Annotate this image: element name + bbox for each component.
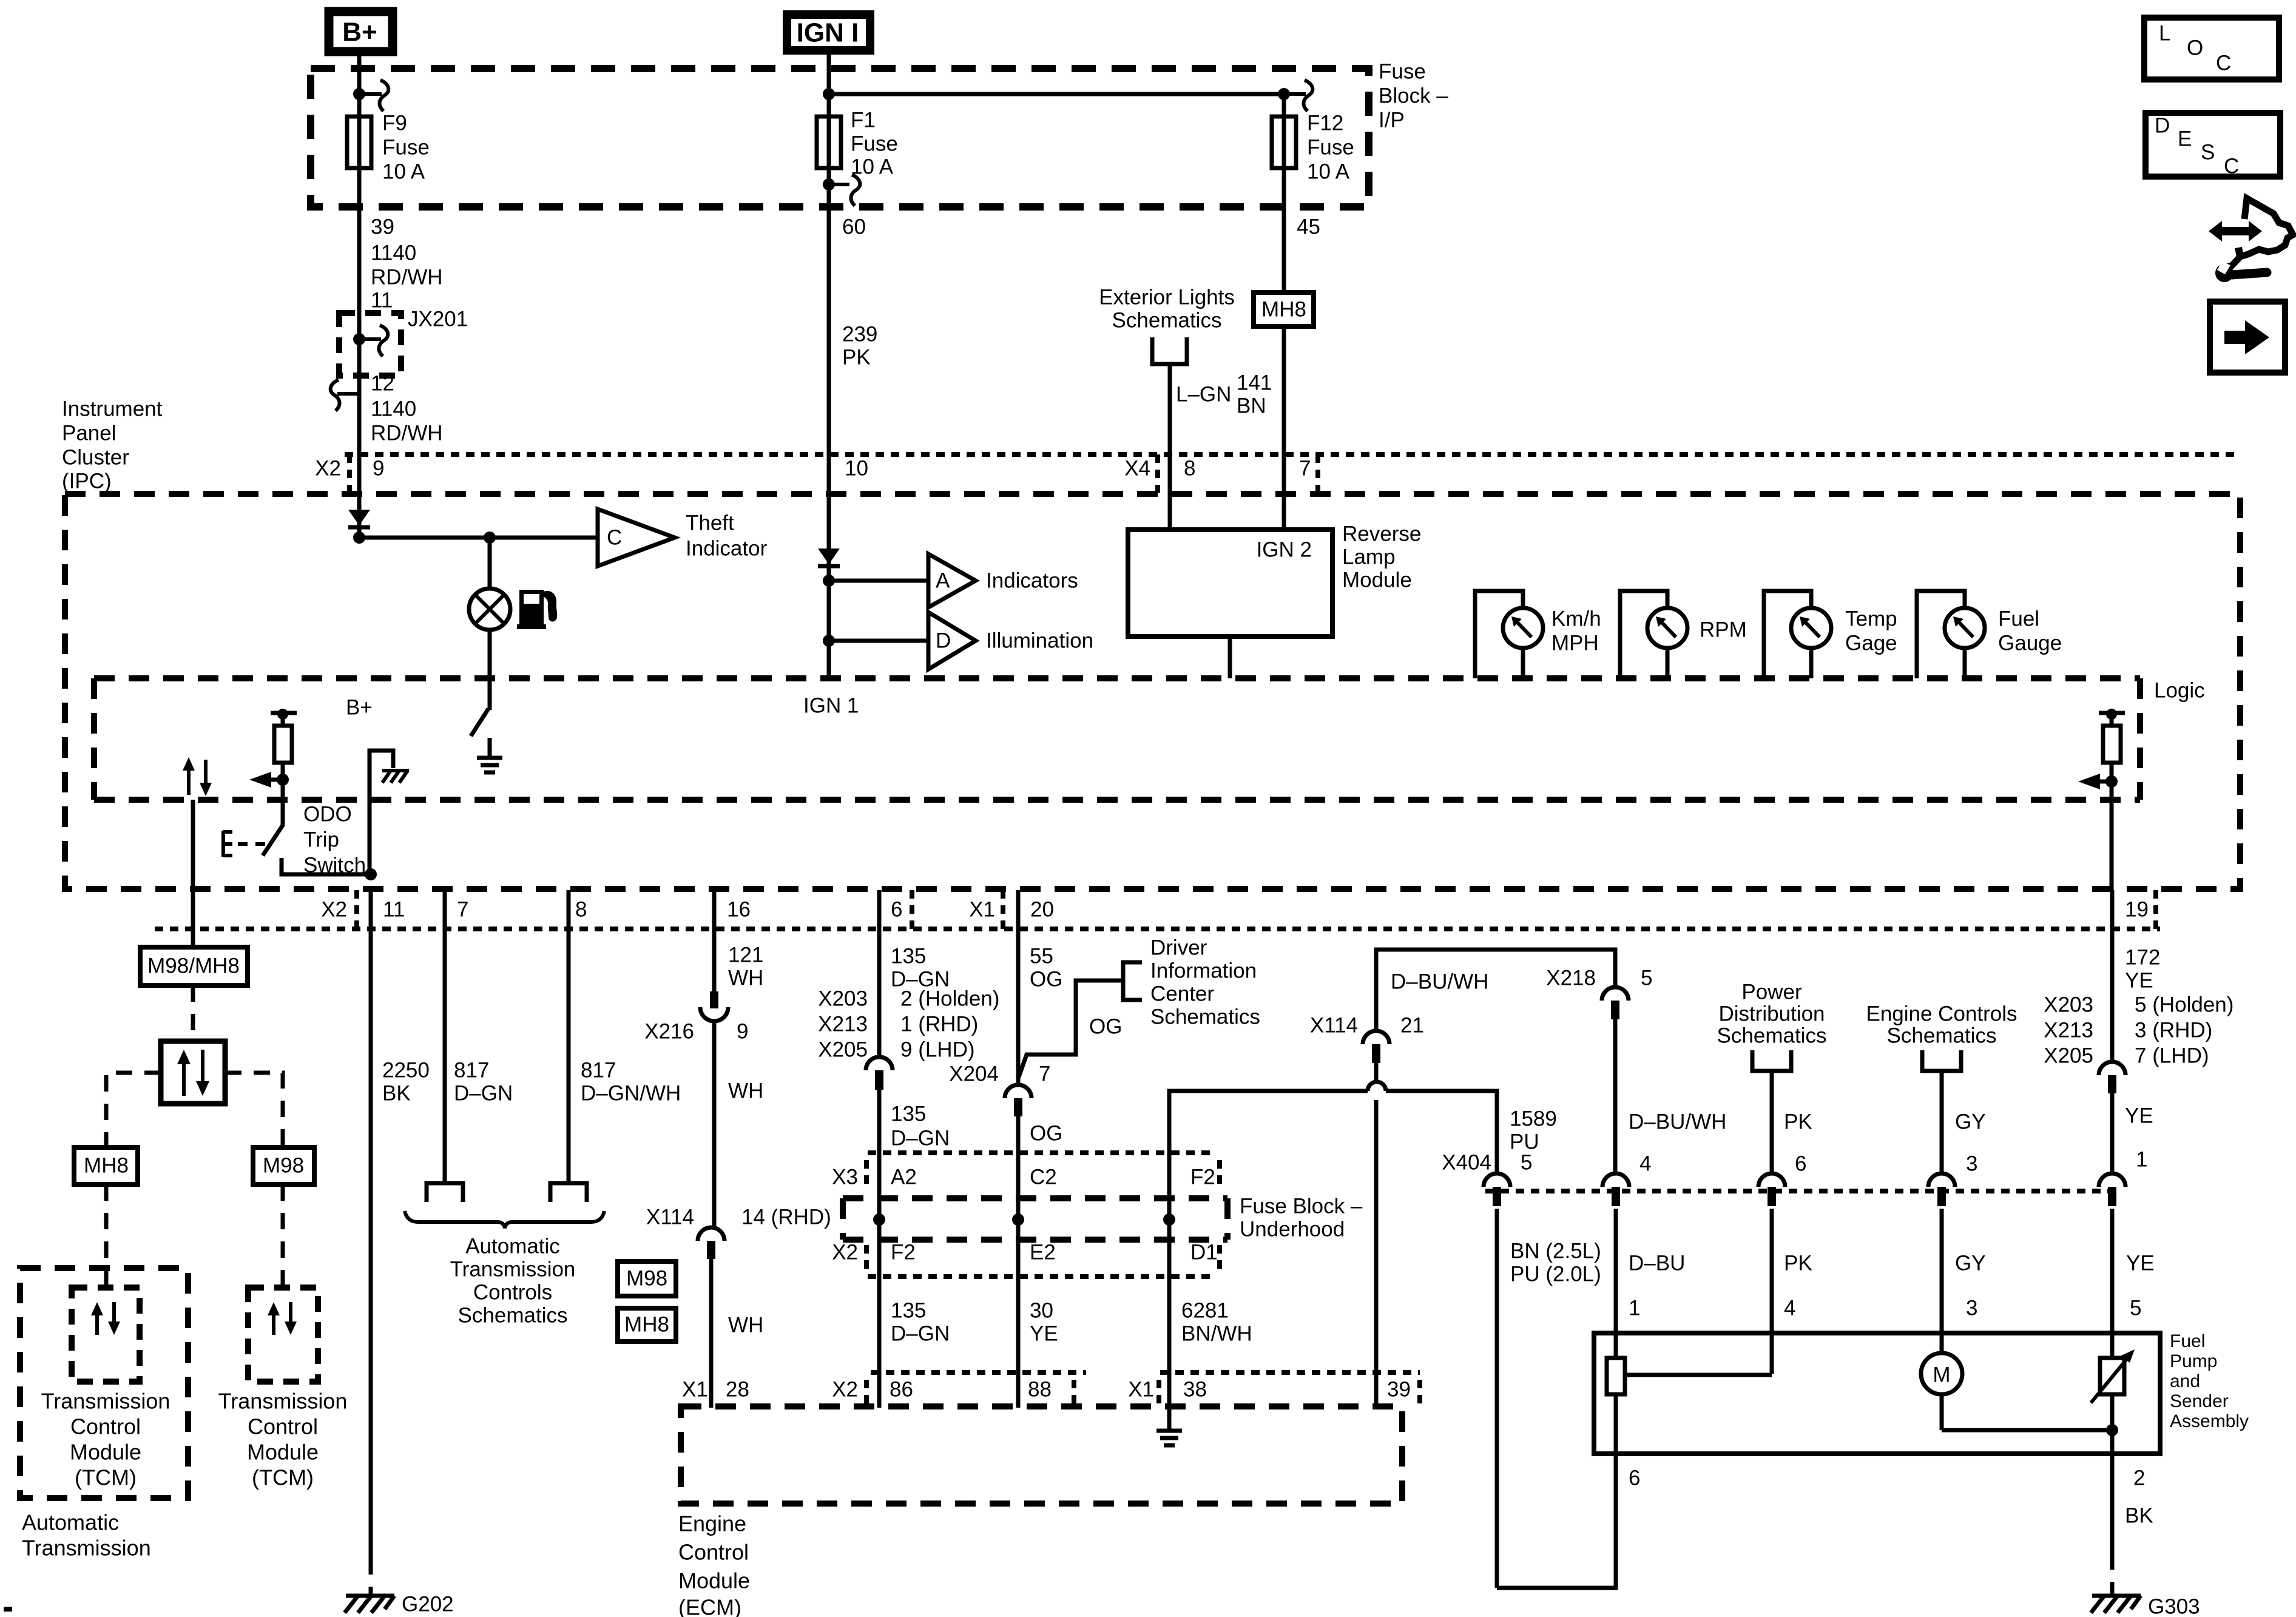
connector dotted line top — [345, 452, 2240, 457]
svg-text:Transmission: Transmission — [218, 1389, 348, 1414]
connector X114-14 — [646, 1205, 831, 1259]
svg-text:X218: X218 — [1546, 966, 1596, 990]
svg-text:5: 5 — [1641, 966, 1652, 990]
node below diode — [353, 532, 365, 544]
goto symbol 817 D-GN — [427, 1183, 463, 1202]
node below F1 — [823, 178, 835, 191]
label Engine Controls Schematics — [1866, 1002, 2017, 1047]
svg-text:4: 4 — [1639, 1152, 1651, 1175]
svg-text:5: 5 — [2130, 1296, 2141, 1320]
labels 2250 BK — [382, 1058, 430, 1105]
svg-text:E: E — [2178, 127, 2192, 150]
svg-text:Information: Information — [1150, 959, 1257, 982]
svg-text:7 (LHD): 7 (LHD) — [2135, 1044, 2209, 1067]
node at lamp branch — [484, 532, 496, 544]
svg-text:X213: X213 — [818, 1012, 868, 1036]
brace automatic transmission controls — [405, 1211, 604, 1228]
svg-text:X203: X203 — [2044, 993, 2093, 1016]
bracket right of pin 7 — [1315, 454, 1320, 493]
JX201 junction box — [339, 307, 468, 376]
wire IGN I down — [827, 49, 831, 116]
switch blade — [471, 709, 488, 736]
svg-text:X203: X203 — [818, 987, 868, 1010]
svg-text:8: 8 — [575, 897, 587, 921]
svg-text:Fuse: Fuse — [1379, 59, 1426, 83]
wire 817 D-GN — [443, 890, 447, 1184]
wire PK — [1770, 1071, 1774, 1174]
svg-text:1140: 1140 — [371, 241, 416, 265]
svg-text:BK: BK — [2125, 1504, 2153, 1527]
TCM 2 dashed box — [248, 1288, 318, 1382]
svg-text:Temp: Temp — [1845, 607, 1897, 630]
label ODO Trip Switch — [303, 802, 366, 877]
svg-text:Schematics: Schematics — [1717, 1024, 1827, 1047]
svg-text:X1: X1 — [969, 897, 995, 921]
svg-text:MH8: MH8 — [84, 1153, 129, 1177]
svg-text:Theft: Theft — [686, 511, 734, 535]
MH8 connector box — [1254, 292, 1314, 326]
svg-text:Cluster: Cluster — [62, 445, 129, 469]
svg-text:Gauge: Gauge — [1998, 631, 2062, 655]
svg-text:OG: OG — [1030, 1121, 1062, 1145]
svg-text:F2: F2 — [891, 1240, 916, 1264]
reverse lamp module box — [1128, 530, 1332, 636]
wire ODO to switch — [281, 780, 285, 826]
node at fuel sender arrow — [2105, 775, 2118, 788]
automatic transmission dashed box — [20, 1268, 188, 1498]
svg-text:2 (Holden): 2 (Holden) — [900, 987, 999, 1010]
wire 2 BK — [2110, 1430, 2115, 1553]
internal chassis ground in IPC — [370, 751, 409, 874]
wire L-GN — [1168, 364, 1172, 531]
connector X114-21 — [1310, 1013, 1424, 1063]
svg-text:YE: YE — [1030, 1322, 1058, 1345]
resistor in pump — [1607, 1333, 1772, 1455]
left arrow at ODO — [249, 772, 283, 788]
goto symbol 817 D-GN/WH — [550, 1183, 587, 1202]
hop over D-BU/WH wire — [1368, 1082, 1386, 1091]
ground G303 — [2091, 1595, 2200, 1617]
svg-text:D–GN: D–GN — [454, 1081, 513, 1105]
clip hook below JX201 left — [331, 380, 359, 411]
DIC bus symbol — [1123, 962, 1142, 1000]
LOC box — [2144, 18, 2279, 79]
svg-text:C2: C2 — [1030, 1165, 1057, 1189]
svg-text:141: 141 — [1237, 371, 1272, 394]
node at ODO arrow — [277, 774, 289, 786]
svg-text:I/P: I/P — [1379, 108, 1405, 132]
svg-text:D1: D1 — [1190, 1240, 1218, 1264]
svg-text:6: 6 — [1629, 1466, 1640, 1490]
X2 bracket lower — [864, 1245, 869, 1275]
svg-text:1: 1 — [1629, 1296, 1640, 1320]
svg-text:Fuel: Fuel — [2170, 1331, 2205, 1351]
svg-text:D: D — [936, 629, 951, 652]
svg-text:10 A: 10 A — [1307, 160, 1350, 183]
gauge Km/h MPH — [1475, 591, 1601, 678]
label Automatic Transmission Controls Schematics — [450, 1234, 576, 1327]
svg-text:Fuse: Fuse — [1307, 135, 1354, 159]
wire 121 WH — [712, 890, 717, 991]
svg-text:Schematics: Schematics — [1150, 1005, 1260, 1028]
svg-text:D–GN: D–GN — [891, 1126, 950, 1150]
node at F12 top — [1278, 88, 1290, 100]
arrow box icon — [2210, 302, 2285, 373]
wire logic to X2 pin (unnumbered) — [191, 800, 195, 948]
connector X404-4 — [1602, 1152, 1651, 1206]
bracket right of 19 — [2153, 890, 2158, 929]
svg-text:Engine: Engine — [678, 1511, 746, 1536]
svg-text:E2: E2 — [1030, 1240, 1056, 1264]
connector X404-1 — [2099, 1147, 2147, 1206]
svg-text:Distribution: Distribution — [1718, 1002, 1825, 1025]
bracket right of 39 — [1417, 1380, 1422, 1408]
odometer resistor — [271, 709, 297, 778]
wire F9 to connector — [357, 168, 362, 495]
svg-text:X216: X216 — [644, 1019, 694, 1043]
svg-text:172: 172 — [2125, 945, 2160, 969]
svg-text:X114: X114 — [646, 1205, 694, 1229]
labels 135 D-GN low — [891, 1298, 950, 1345]
wire YE mid — [2110, 1093, 2115, 1174]
node to A buffer — [823, 575, 835, 587]
svg-text:817: 817 — [581, 1058, 616, 1082]
svg-text:45: 45 — [1297, 215, 1320, 238]
svg-text:GY: GY — [1955, 1110, 1986, 1133]
labels 2 Holden 1 RHD 9 LHD — [900, 987, 999, 1061]
X1 bracket — [1001, 890, 1005, 929]
svg-text:X404: X404 — [1442, 1150, 1491, 1174]
svg-text:S: S — [2201, 140, 2215, 164]
X2 bracket ECM — [864, 1380, 869, 1408]
M98 connector box — [253, 1147, 314, 1184]
svg-text:Fuse Block –: Fuse Block – — [1240, 1194, 1363, 1218]
wire 55 OG — [1016, 890, 1021, 1086]
svg-text:MH8: MH8 — [1261, 297, 1306, 321]
svg-text:2: 2 — [2133, 1466, 2145, 1490]
labels 135 D-GN mid — [891, 1102, 950, 1150]
label TCM 1 — [41, 1389, 171, 1490]
svg-text:X2: X2 — [832, 1240, 858, 1264]
svg-text:D–BU: D–BU — [1629, 1251, 1685, 1275]
svg-text:Power: Power — [1741, 980, 1802, 1004]
M98/MH8 connector box — [140, 947, 248, 985]
wire X218-5 down — [1613, 1019, 1618, 1174]
svg-text:IGN 1: IGN 1 — [803, 694, 859, 717]
label Driver Information Center Schematics — [1150, 936, 1260, 1028]
D buffer triangle — [928, 612, 976, 669]
svg-text:817: 817 — [454, 1058, 489, 1082]
svg-text:1589: 1589 — [1510, 1107, 1557, 1130]
svg-text:(IPC): (IPC) — [62, 469, 112, 493]
svg-text:M98: M98 — [626, 1266, 667, 1290]
svg-text:D–BU/WH: D–BU/WH — [1391, 970, 1488, 993]
svg-text:G303: G303 — [2148, 1595, 2200, 1617]
X4 bracket — [1155, 454, 1160, 493]
svg-text:Control: Control — [70, 1414, 141, 1439]
svg-text:X204: X204 — [949, 1062, 999, 1085]
svg-text:RD/WH: RD/WH — [371, 265, 443, 289]
svg-text:Indicator: Indicator — [686, 536, 768, 560]
wire IGN1 into IPC — [827, 495, 831, 678]
connector X203 on D-GN — [866, 1057, 893, 1090]
connector X216-9 — [644, 991, 748, 1043]
svg-text:Indicators: Indicators — [986, 569, 1078, 592]
data arrows in TCM 1 — [91, 1302, 120, 1335]
svg-text:8: 8 — [1184, 456, 1195, 480]
connector dotted X3 row — [868, 1150, 1210, 1155]
node in JX201 — [353, 333, 365, 345]
dashed wire M98 to TCM — [281, 1184, 285, 1288]
svg-text:X205: X205 — [2044, 1044, 2093, 1067]
labels 12 1140 RD/WH — [371, 371, 443, 445]
svg-text:Gage: Gage — [1845, 631, 1897, 655]
svg-text:PK: PK — [1784, 1110, 1812, 1133]
labels 30 YE — [1030, 1298, 1058, 1345]
labels 141 BN — [1237, 371, 1272, 417]
svg-text:3: 3 — [1966, 1152, 1977, 1175]
svg-text:14 (RHD): 14 (RHD) — [741, 1205, 831, 1229]
labels 6281 BN/WH — [1181, 1298, 1252, 1345]
X3 bracket — [864, 1160, 869, 1190]
svg-text:(TCM): (TCM) — [75, 1465, 137, 1490]
svg-text:3 (RHD): 3 (RHD) — [2135, 1018, 2212, 1042]
svg-text:10: 10 — [845, 456, 868, 480]
svg-text:5: 5 — [1521, 1150, 1532, 1174]
label Exterior Lights Schematics — [1099, 285, 1235, 332]
indicator lamp — [469, 589, 510, 630]
svg-text:86: 86 — [890, 1377, 913, 1401]
label X404 5 — [1442, 1150, 1532, 1174]
TCM 1 dashed box — [72, 1288, 140, 1382]
svg-text:6: 6 — [1795, 1152, 1806, 1175]
svg-text:121: 121 — [728, 943, 763, 967]
fuse F1 10A — [817, 116, 841, 168]
svg-text:Km/h: Km/h — [1551, 607, 1601, 630]
fuel pump dispenser icon — [517, 590, 557, 629]
X2 bracket bottom — [354, 890, 359, 929]
connector X404-6 — [1758, 1152, 1806, 1206]
svg-text:D–GN/WH: D–GN/WH — [581, 1081, 681, 1105]
svg-text:Pump: Pump — [2170, 1351, 2217, 1371]
labels 5 Holden 3 RHD 7 LHD — [2135, 993, 2234, 1067]
wire to theft indicator — [359, 536, 598, 540]
svg-text:Control: Control — [248, 1414, 318, 1439]
svg-text:3: 3 — [1966, 1296, 1977, 1320]
svg-text:Center: Center — [1150, 982, 1214, 1005]
svg-text:OG: OG — [1089, 1014, 1122, 1038]
dashed wire right branch — [225, 1073, 283, 1147]
svg-text:F12: F12 — [1307, 111, 1343, 135]
label Power Distribution Schematics — [1717, 980, 1827, 1047]
svg-text:9 (LHD): 9 (LHD) — [900, 1038, 975, 1061]
svg-text:38: 38 — [1183, 1377, 1207, 1401]
clip hook at B+ node — [359, 80, 388, 111]
wire GY to motor — [1940, 1209, 1944, 1354]
svg-text:YE: YE — [2126, 1251, 2155, 1275]
svg-text:X4: X4 — [1124, 456, 1150, 480]
svg-text:6: 6 — [891, 897, 902, 921]
wire PK to pump — [1770, 1209, 1774, 1374]
svg-text:F1: F1 — [851, 108, 876, 132]
svg-text:7: 7 — [457, 897, 468, 921]
svg-text:BN: BN — [1237, 394, 1266, 417]
labels 135 D-GN — [891, 944, 950, 991]
exterior lights bus symbol — [1152, 337, 1187, 364]
svg-text:Module: Module — [1342, 568, 1412, 592]
svg-text:Schematics: Schematics — [458, 1303, 568, 1327]
svg-text:19: 19 — [2125, 897, 2149, 921]
wire GY — [1940, 1071, 1944, 1174]
svg-text:Module: Module — [70, 1440, 141, 1465]
svg-text:135: 135 — [891, 944, 926, 968]
svg-text:G202: G202 — [402, 1592, 454, 1616]
svg-text:IGN I: IGN I — [797, 18, 859, 48]
svg-text:Engine Controls: Engine Controls — [1866, 1002, 2017, 1025]
connector X404-5 — [1484, 1173, 1510, 1206]
svg-text:JX201: JX201 — [408, 307, 468, 331]
A buffer triangle — [928, 554, 976, 607]
gauge RPM — [1620, 591, 1747, 678]
svg-text:IGN 2: IGN 2 — [1257, 538, 1312, 561]
svg-text:Panel: Panel — [62, 421, 116, 445]
svg-text:B+: B+ — [346, 695, 373, 719]
wire B+ into IPC — [357, 495, 362, 536]
labels 817 D-GN — [454, 1058, 513, 1105]
svg-text:X2: X2 — [315, 456, 341, 480]
svg-text:(TCM): (TCM) — [252, 1465, 314, 1490]
svg-text:PU (2.0L): PU (2.0L) — [1510, 1262, 1601, 1286]
F12 labels — [1307, 111, 1354, 183]
svg-text:MPH: MPH — [1551, 631, 1599, 655]
labels 39 1140 RD/WH 11 — [371, 215, 443, 312]
data arrows symbol in logic — [183, 757, 212, 796]
svg-text:39: 39 — [371, 215, 394, 238]
ECM dashed box — [681, 1406, 1402, 1504]
wire D-BU/WH top loop — [1376, 950, 1615, 1031]
theft indicator buffer triangle — [598, 509, 675, 566]
dashed end of BK wire — [369, 1558, 373, 1595]
svg-text:MH8: MH8 — [624, 1312, 669, 1336]
clip hook below F1 — [829, 175, 860, 206]
svg-text:9: 9 — [373, 456, 384, 480]
svg-text:12: 12 — [371, 371, 394, 395]
svg-text:X2: X2 — [321, 897, 347, 921]
label Fuel Pump and Sender Assembly — [2170, 1331, 2249, 1431]
fuse F12 10A — [1272, 94, 1296, 168]
wire 141 BN — [1282, 326, 1286, 531]
wire 135 D-GN upper — [877, 890, 882, 1058]
svg-text:2250: 2250 — [382, 1058, 430, 1082]
wire 6281 BN/WH loop top — [1169, 1091, 1368, 1220]
scan artifact dot — [4, 1607, 12, 1612]
svg-text:Schematics: Schematics — [1887, 1024, 1997, 1047]
svg-text:M98: M98 — [263, 1153, 304, 1177]
svg-text:Assembly: Assembly — [2170, 1411, 2249, 1431]
svg-text:X114: X114 — [1310, 1013, 1358, 1037]
svg-text:Module: Module — [678, 1568, 750, 1593]
svg-text:135: 135 — [891, 1102, 926, 1126]
X2 bracket — [347, 454, 352, 493]
DESC box — [2146, 113, 2280, 178]
svg-text:(ECM): (ECM) — [678, 1595, 741, 1617]
connector dotted X2 row — [868, 1274, 1210, 1279]
bracket right of 6 — [910, 890, 914, 929]
engine controls bus symbol — [1922, 1050, 1961, 1071]
labels 239 PK — [842, 322, 877, 369]
connector dotted line bottom — [155, 927, 2160, 931]
svg-text:239: 239 — [842, 322, 877, 346]
label Instrument Panel Cluster (IPC) — [62, 397, 163, 493]
svg-text:20: 20 — [1030, 897, 1054, 921]
bracket right of F2 — [1217, 1160, 1222, 1190]
MH8 box mid — [618, 1308, 676, 1342]
svg-text:9: 9 — [737, 1019, 748, 1043]
svg-text:6281: 6281 — [1181, 1298, 1229, 1322]
svg-text:Automatic: Automatic — [22, 1510, 119, 1535]
ground at ECM pin 38 — [1156, 1409, 1182, 1445]
svg-text:WH: WH — [728, 966, 763, 990]
svg-text:Underhood: Underhood — [1240, 1217, 1345, 1241]
svg-text:YE: YE — [2125, 1104, 2153, 1127]
wire BN PU down — [1495, 1209, 1499, 1588]
svg-text:O: O — [2187, 36, 2203, 59]
wire BN/WH down — [1167, 1220, 1172, 1409]
svg-text:Block –: Block – — [1379, 84, 1448, 107]
label Fuse Block - I/P — [1379, 59, 1448, 132]
svg-text:10 A: 10 A — [851, 155, 894, 178]
svg-text:16: 16 — [727, 897, 751, 921]
svg-text:X2: X2 — [832, 1377, 858, 1401]
clip hook in JX201 — [359, 325, 388, 356]
svg-text:WH: WH — [728, 1079, 763, 1102]
svg-text:X205: X205 — [818, 1038, 868, 1061]
svg-text:39: 39 — [1387, 1377, 1411, 1401]
svg-text:X213: X213 — [2044, 1018, 2093, 1042]
node IGN I top — [823, 88, 835, 100]
wire OG lower — [1016, 1116, 1021, 1408]
svg-text:Fuel: Fuel — [1998, 607, 2039, 630]
MH8 connector box — [74, 1147, 138, 1184]
svg-text:5 (Holden): 5 (Holden) — [2135, 993, 2234, 1016]
svg-text:RPM: RPM — [1700, 618, 1747, 641]
labels 817 D-GN/WH — [581, 1058, 681, 1105]
svg-text:Driver: Driver — [1150, 936, 1207, 959]
svg-text:11: 11 — [371, 288, 393, 312]
svg-text:X1: X1 — [682, 1377, 708, 1401]
svg-text:Logic: Logic — [2154, 678, 2205, 702]
svg-text:GY: GY — [1955, 1251, 1986, 1275]
wire 172 YE — [2110, 890, 2115, 1063]
svg-text:PK: PK — [842, 345, 871, 369]
svg-text:1140: 1140 — [371, 397, 416, 420]
motor M — [1921, 1353, 2112, 1430]
svg-text:1: 1 — [2136, 1147, 2147, 1171]
diode on IGN1 wire — [818, 549, 840, 566]
wire loop to 1589 PU — [1386, 1091, 1497, 1174]
connector X203 on YE — [2099, 1062, 2125, 1093]
svg-text:X3: X3 — [832, 1165, 858, 1189]
labels BN 2.5L PU 2.0L — [1510, 1239, 1601, 1286]
ground below switch — [477, 738, 502, 772]
F9 labels — [382, 111, 430, 183]
svg-text:Module: Module — [247, 1440, 319, 1465]
dashed wire below M98/MH8 — [191, 985, 195, 1041]
fuel pump box — [1594, 1333, 2160, 1454]
bracket right of D1 — [1217, 1245, 1222, 1275]
node C2-E2 — [1012, 1214, 1024, 1226]
svg-text:OG: OG — [1030, 967, 1062, 991]
